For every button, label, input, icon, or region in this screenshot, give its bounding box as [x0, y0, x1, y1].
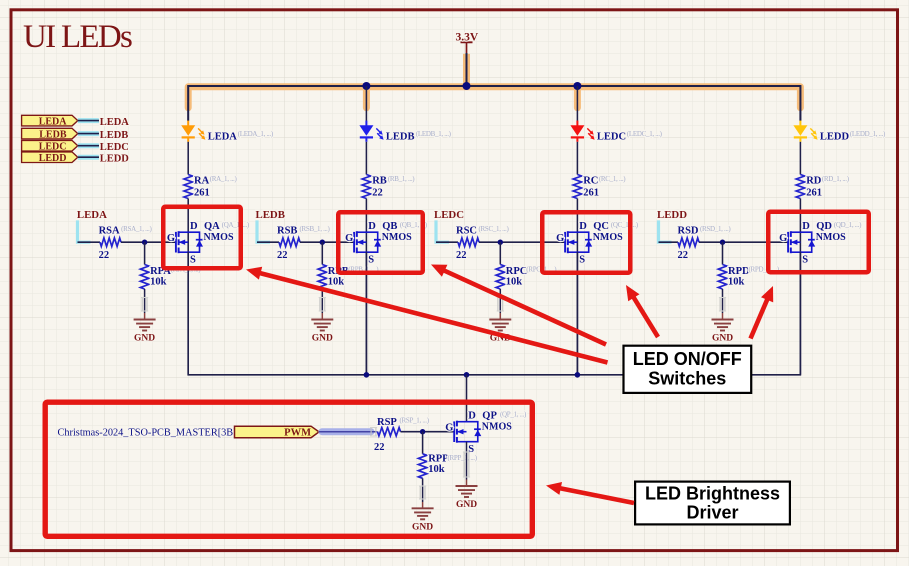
resistor RSA 22: [99, 225, 153, 261]
annotation box QC: [542, 212, 630, 273]
svg-text:261: 261: [194, 187, 210, 198]
LED LEDD: [793, 121, 886, 143]
wire branch D top stub: [799, 86, 801, 121]
wire pulldown B: [321, 242, 323, 264]
svg-text:NMOS: NMOS: [816, 232, 846, 243]
wire RSA to gate: [121, 241, 176, 243]
svg-text:RC: RC: [583, 175, 598, 186]
annotation arrow to driver: [559, 488, 634, 503]
wire branch B top stub: [365, 86, 367, 121]
port LEDB: [22, 128, 78, 140]
junction rail-C: [573, 82, 581, 90]
resistor RC 261: [573, 175, 626, 199]
svg-text:PWM: PWM: [284, 427, 311, 438]
svg-text:GND: GND: [412, 523, 433, 533]
wire pulldown P: [422, 432, 424, 454]
junction gate D: [720, 240, 725, 245]
svg-text:QB: QB: [382, 221, 397, 232]
svg-text:LEDB: LEDB: [100, 130, 129, 141]
power net 3.3V rail highlight: [188, 54, 800, 108]
svg-text:Switches: Switches: [648, 369, 726, 389]
svg-text:QD: QD: [816, 221, 832, 232]
resistor RSB 22: [277, 225, 331, 261]
port LEDC: [22, 140, 78, 152]
svg-text:(LEDB_1, ...): (LEDB_1, ...): [416, 130, 452, 138]
svg-text:D: D: [802, 221, 810, 232]
annotation arrow to QC: [633, 296, 658, 337]
resistor RSC 22: [456, 225, 510, 261]
svg-text:S: S: [190, 255, 196, 266]
svg-text:(RD_1, ...): (RD_1, ...): [822, 175, 850, 183]
wire RPD to GND: [719, 289, 726, 320]
junction bus-QP: [464, 372, 470, 378]
junction gate B: [320, 240, 325, 245]
LED LEDC: [570, 121, 662, 143]
svg-text:NMOS: NMOS: [593, 232, 623, 243]
wire pulldown C: [499, 242, 501, 264]
junction bus-B: [364, 372, 370, 378]
svg-text:22: 22: [678, 250, 689, 261]
svg-text:LEDC: LEDC: [39, 142, 67, 153]
wire port LEDB: [78, 131, 99, 136]
svg-text:LEDA: LEDA: [208, 131, 238, 142]
svg-text:10k: 10k: [728, 277, 745, 288]
svg-text:G: G: [556, 233, 564, 244]
svg-text:RSB: RSB: [277, 226, 297, 237]
svg-text:LEDD: LEDD: [657, 209, 687, 221]
svg-text:(RA_1, ...): (RA_1, ...): [210, 175, 238, 183]
svg-text:QC: QC: [593, 221, 609, 232]
ground GND QP: [456, 486, 478, 497]
svg-text:10k: 10k: [428, 464, 445, 475]
svg-text:(QC_1, ...): (QC_1, ...): [611, 221, 639, 229]
annotation arrow to QA: [259, 273, 608, 363]
svg-text:261: 261: [806, 187, 822, 198]
svg-text:22: 22: [374, 442, 385, 453]
svg-text:(LEDD_1, ...): (LEDD_1, ...): [850, 130, 886, 138]
svg-text:(RSC_1, ...): (RSC_1, ...): [479, 225, 510, 233]
svg-text:(RB_1, ...): (RB_1, ...): [388, 175, 415, 183]
svg-text:NMOS: NMOS: [204, 232, 234, 243]
port LEDA: [22, 115, 78, 127]
wire gate entry LEDA (highlight): [78, 220, 101, 242]
svg-text:3.3V: 3.3V: [456, 31, 479, 43]
transistor QA NMOS: [167, 221, 250, 266]
wire branch C source: [576, 252, 578, 375]
svg-text:LED ON/OFF: LED ON/OFF: [633, 349, 742, 369]
resistor RPB 10k: [318, 265, 379, 290]
svg-text:LEDA: LEDA: [77, 209, 107, 221]
junction rail-B: [362, 82, 370, 90]
svg-text:S: S: [579, 255, 585, 266]
svg-text:(LEDA_1, ...): (LEDA_1, ...): [238, 130, 274, 138]
wire PWM highlighted: [319, 428, 378, 437]
svg-text:LEDD: LEDD: [100, 153, 130, 164]
svg-text:LEDB: LEDB: [386, 131, 415, 142]
wire RD to QD drain / source to bus: [799, 199, 801, 375]
svg-text:LEDB: LEDB: [256, 209, 285, 221]
port LEDD: [22, 152, 78, 164]
svg-text:NMOS: NMOS: [382, 232, 412, 243]
ground GND B: [311, 320, 333, 331]
svg-text:G: G: [445, 422, 453, 433]
svg-text:10k: 10k: [150, 277, 167, 288]
svg-text:UI LEDs: UI LEDs: [23, 19, 132, 55]
svg-text:(LEDC_1, ...): (LEDC_1, ...): [627, 130, 663, 138]
annotation box driver: [45, 402, 532, 536]
annotation arrow to QD: [751, 298, 768, 339]
wire RB to QB drain / source to bus: [365, 199, 367, 375]
resistor RA 261: [184, 175, 238, 199]
wire gate entry LEDD (highlight): [659, 220, 679, 242]
wire gate entry LEDC (highlight): [436, 220, 458, 242]
svg-text:QP: QP: [482, 411, 497, 422]
svg-text:Driver: Driver: [686, 503, 738, 523]
junction rail-power: [463, 82, 471, 90]
svg-text:LEDA: LEDA: [39, 116, 68, 127]
annotation box QA: [163, 207, 241, 269]
resistor RPC 10k: [496, 265, 557, 290]
svg-text:Christmas-2024_TSO-PCB_MASTER[: Christmas-2024_TSO-PCB_MASTER[3B]: [58, 427, 237, 438]
wire pulldown A: [144, 242, 146, 264]
wire 3.3V stem: [466, 53, 468, 86]
svg-text:(QA_1, ...): (QA_1, ...): [222, 221, 250, 229]
LED LEDA: [181, 121, 274, 143]
svg-text:D: D: [190, 221, 198, 232]
wire RPP to GND: [419, 478, 426, 508]
wire source bus: [188, 252, 800, 375]
svg-text:RSC: RSC: [456, 226, 477, 237]
svg-text:RSD: RSD: [678, 226, 699, 237]
svg-text:D: D: [468, 410, 476, 421]
svg-text:D: D: [368, 221, 376, 232]
svg-text:D: D: [579, 221, 587, 232]
resistor RPP 10k: [418, 453, 477, 478]
label box LED Brightness Driver: [635, 482, 790, 525]
svg-text:GND: GND: [312, 334, 333, 344]
svg-text:QA: QA: [204, 221, 220, 232]
junction gate A: [142, 240, 147, 245]
svg-text:LEDC: LEDC: [434, 209, 464, 221]
power port 3.3V: [456, 31, 479, 53]
LED LEDB: [359, 121, 451, 143]
svg-text:(RC_1, ...): (RC_1, ...): [599, 175, 626, 183]
wire RPB to GND: [319, 289, 326, 320]
wire port LEDD: [78, 155, 99, 160]
svg-text:22: 22: [372, 187, 383, 198]
resistor RSP 22: [374, 416, 430, 453]
resistor RPD 10k: [718, 265, 780, 290]
svg-text:GND: GND: [712, 334, 733, 344]
resistor RD 261: [796, 175, 850, 199]
ground GND RPP: [412, 508, 434, 519]
ground GND C: [489, 320, 511, 331]
transistor QP NMOS: [445, 410, 527, 455]
wire RSB to gate: [300, 241, 354, 243]
svg-text:10k: 10k: [328, 277, 345, 288]
annotation box QB: [338, 212, 423, 273]
svg-text:(RSA_1, ...): (RSA_1, ...): [121, 225, 152, 233]
resistor RPA 10k: [140, 265, 201, 290]
wire LEDA to RA: [187, 142, 189, 175]
svg-text:10k: 10k: [506, 277, 523, 288]
svg-text:RSA: RSA: [99, 226, 120, 237]
wire branch A top stub: [187, 86, 189, 121]
wire RC to QC drain / source to bus: [576, 199, 578, 375]
svg-text:22: 22: [99, 250, 110, 261]
svg-text:RPP: RPP: [428, 453, 449, 464]
svg-text:(QD_1, ...): (QD_1, ...): [834, 221, 862, 229]
wire pulldown D: [722, 242, 724, 264]
svg-text:22: 22: [277, 250, 288, 261]
svg-text:LEDB: LEDB: [39, 129, 67, 140]
wire RPA to GND: [141, 289, 148, 320]
resistor RSD 22: [678, 225, 732, 261]
svg-text:(RSB_1, ...): (RSB_1, ...): [300, 225, 331, 233]
svg-text:S: S: [802, 255, 808, 266]
svg-text:(RPP_1, ...): (RPP_1, ...): [448, 454, 478, 462]
svg-text:22: 22: [456, 250, 467, 261]
wire RSD to gate: [699, 241, 788, 243]
wire 3.3V rail: [188, 86, 800, 121]
wire LEDB to RB: [365, 142, 367, 175]
ground GND A: [134, 320, 156, 331]
svg-text:RPC: RPC: [506, 266, 528, 277]
ground GND D: [712, 320, 734, 331]
svg-text:(RSP_1, ...): (RSP_1, ...): [400, 416, 430, 424]
wire port LEDA: [78, 118, 99, 123]
wire RA to QA drain / source to bus: [187, 199, 189, 375]
svg-text:LEDA: LEDA: [100, 117, 130, 128]
wire RSC to gate: [479, 241, 565, 243]
svg-text:RSP: RSP: [377, 417, 397, 428]
svg-text:G: G: [167, 233, 175, 244]
svg-text:G: G: [345, 233, 353, 244]
transistor QC NMOS: [556, 221, 639, 266]
label box LED ON/OFF Switches: [624, 346, 752, 393]
svg-text:RPD: RPD: [728, 266, 750, 277]
wire branch B source: [365, 252, 367, 375]
wire branch C top stub: [576, 86, 578, 121]
wire QP source to GND: [463, 442, 470, 486]
svg-text:G: G: [779, 233, 787, 244]
svg-text:LEDC: LEDC: [597, 131, 626, 142]
annotation arrow to QB: [443, 270, 606, 345]
junction gate C: [498, 240, 503, 245]
transistor QD NMOS: [779, 221, 862, 266]
wire gate entry LEDB (highlight): [257, 220, 279, 242]
svg-text:(RSD_1, ...): (RSD_1, ...): [700, 225, 731, 233]
svg-text:GND: GND: [134, 334, 155, 344]
junction bus-C: [575, 372, 581, 378]
svg-text:S: S: [368, 255, 374, 266]
junction gate P: [420, 429, 425, 434]
port PWM: [235, 426, 320, 438]
svg-text:GND: GND: [456, 500, 477, 510]
wire RSP to QP gate: [401, 431, 455, 433]
wire LEDC to RC: [576, 142, 578, 175]
svg-text:NMOS: NMOS: [482, 421, 512, 432]
transistor QB NMOS: [345, 221, 428, 266]
svg-text:RA: RA: [194, 175, 210, 186]
svg-text:LEDD: LEDD: [820, 131, 850, 142]
svg-text:LEDD: LEDD: [39, 153, 67, 164]
wire bus to QP drain: [466, 375, 468, 422]
resistor RB 22: [362, 175, 415, 199]
wire RPC to GND: [497, 289, 504, 320]
svg-text:LED Brightness: LED Brightness: [645, 484, 780, 504]
svg-text:261: 261: [583, 187, 599, 198]
svg-text:RB: RB: [372, 175, 387, 186]
svg-text:RD: RD: [806, 175, 822, 186]
annotation box QD: [768, 212, 869, 273]
svg-text:LEDC: LEDC: [100, 142, 129, 153]
svg-text:(QP_1, ...): (QP_1, ...): [500, 411, 527, 419]
wire port LEDC: [78, 143, 99, 148]
wire LEDD to RD: [799, 142, 801, 175]
